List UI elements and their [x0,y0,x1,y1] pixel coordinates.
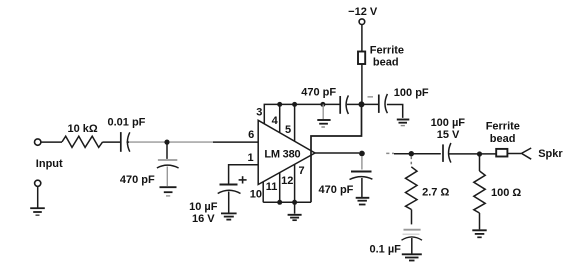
svg-text:11: 11 [266,181,278,193]
svg-text:470 pF: 470 pF [120,174,155,186]
svg-text:bead: bead [373,57,399,69]
svg-text:1: 1 [247,152,253,164]
svg-text:−12 V: −12 V [348,6,378,18]
svg-text:7: 7 [299,165,305,177]
svg-text:6: 6 [248,129,254,141]
svg-text:15 V: 15 V [437,129,460,141]
svg-text:3: 3 [256,107,262,119]
svg-text:2.7 Ω: 2.7 Ω [422,187,449,199]
svg-text:16 V: 16 V [192,213,215,225]
svg-text:Input: Input [36,158,63,170]
svg-text:470 pF: 470 pF [301,86,336,98]
svg-text:10 µF: 10 µF [189,201,218,213]
svg-text:100 Ω: 100 Ω [491,187,521,199]
svg-text:0.1 µF: 0.1 µF [370,243,402,255]
svg-text:0.01 pF: 0.01 pF [108,116,146,128]
svg-text:4: 4 [272,115,279,127]
svg-text:Spkr: Spkr [538,148,563,160]
svg-text:100 pF: 100 pF [394,87,429,99]
svg-text:Ferrite: Ferrite [370,45,404,57]
svg-text:470 pF: 470 pF [319,184,354,196]
svg-text:LM 380: LM 380 [264,148,300,160]
svg-text:100 µF: 100 µF [431,117,466,129]
svg-text:10: 10 [250,189,262,201]
svg-text:5: 5 [285,124,291,136]
svg-text:Ferrite: Ferrite [486,121,520,133]
svg-text:bead: bead [490,133,516,145]
svg-text:10 kΩ: 10 kΩ [67,123,97,135]
svg-text:12: 12 [281,175,293,187]
